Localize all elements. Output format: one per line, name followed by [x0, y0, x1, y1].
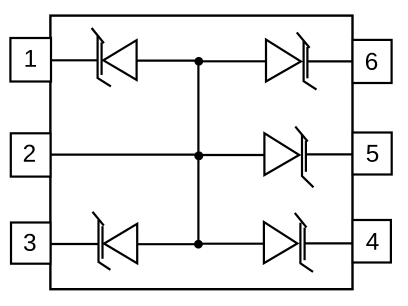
- wire D1 anode to bus node A: [137, 59, 199, 61]
- pin 5 terminal box: [353, 133, 392, 175]
- pin 1 terminal box: [10, 38, 51, 82]
- pin number 2: [24, 145, 35, 162]
- wire bus node B to D4 anode: [198, 154, 264, 156]
- wire pin2 to bus node B: [51, 154, 199, 156]
- pin number 5: [367, 145, 379, 162]
- wire D3 cathode to pin 6: [308, 60, 353, 62]
- pin 3 terminal box: [11, 223, 51, 264]
- pin number 1: [25, 50, 36, 67]
- wire pin1 to D1 cathode: [51, 59, 98, 61]
- pin number 3: [24, 234, 36, 251]
- wire D4 cathode to pin 5: [306, 153, 353, 155]
- pin 6 terminal box: [353, 40, 392, 83]
- zener diode D4 (pin 5, cathode right): [264, 127, 313, 188]
- wire bus node C to D5 anode: [198, 243, 264, 245]
- pin 2 terminal box: [11, 133, 51, 176]
- zener diode D5 (pin 4, cathode right): [264, 213, 313, 272]
- wire common bus vertical: [197, 61, 199, 244]
- pin 4 terminal box: [353, 220, 391, 263]
- wire pin3 to D2 cathode: [51, 243, 99, 245]
- wire bus node A to D3 anode: [198, 60, 266, 62]
- wire D5 cathode to pin 4: [305, 242, 353, 244]
- junction node C (row 3): [194, 240, 203, 249]
- pin number 4: [366, 233, 378, 250]
- pin number 6: [366, 53, 377, 70]
- zener diode D1 (pin 1, cathode left): [92, 28, 137, 86]
- wire D2 anode to bus node C: [137, 243, 199, 245]
- junction node B (row 2): [194, 151, 203, 160]
- junction node A (row 1): [194, 57, 203, 66]
- zener diode D2 (pin 3, cathode left): [93, 212, 138, 270]
- zener diode D3 (pin 6, cathode right): [266, 32, 317, 89]
- IC body outline: [50, 16, 352, 290]
